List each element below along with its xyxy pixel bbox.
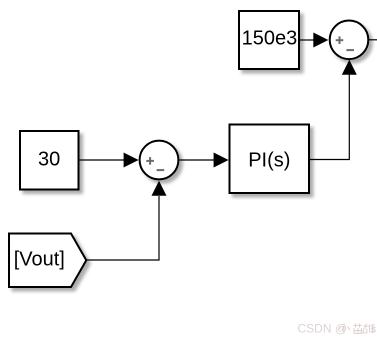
plus sign (top sum) — [336, 36, 344, 44]
plus sign (mid sum) — [146, 157, 154, 165]
svg-text:150e3: 150e3 — [242, 28, 298, 50]
wire 30 to mid sum — [79, 159, 124, 161]
wire PI block up to top sum — [310, 75, 350, 160]
svg-text:PI(s): PI(s) — [248, 149, 290, 171]
minus sign (mid sum) — [157, 169, 165, 171]
constant block 30 — [20, 131, 79, 190]
arrowhead into PI block — [214, 153, 229, 168]
sum junction U1 (middle) — [140, 141, 179, 180]
svg-text:[Vout]: [Vout] — [14, 248, 65, 270]
arrowhead into mid sum — [124, 153, 139, 168]
wire 150e3 to top sum — [300, 39, 314, 41]
PID controller block PI(s) — [230, 125, 310, 194]
arrowhead into top sum bottom — [342, 60, 357, 75]
svg-text:ls: ls — [368, 324, 376, 336]
arrowhead into mid sum bottom — [152, 181, 167, 196]
output wire from top sum to edge — [369, 39, 377, 41]
constant block 150e3 — [239, 11, 299, 69]
minus sign (top sum) — [346, 49, 354, 51]
svg-text:30: 30 — [38, 148, 60, 170]
wire Vout to mid sum bottom — [86, 196, 159, 260]
sum junction U2 (top) — [330, 21, 369, 60]
wire mid sum to PI block — [179, 159, 214, 161]
arrowhead into top sum — [313, 33, 328, 48]
glyph strokes for CJK watermark — [338, 324, 375, 334]
From tag [Vout] — [9, 234, 86, 288]
watermark CSDN — [298, 322, 377, 336]
